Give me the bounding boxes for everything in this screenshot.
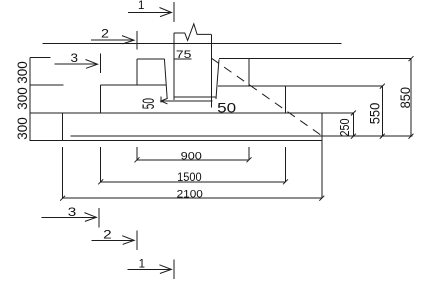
wall left edge — [173, 33, 175, 100]
svg-text:2: 2 — [103, 230, 112, 242]
svg-text:3: 3 — [71, 53, 79, 65]
svg-text:2100: 2100 — [177, 189, 203, 201]
left level stub at tier-1 top — [30, 56, 51, 58]
tier-1 right top edge + 850 extension — [219, 58, 411, 60]
tick slash 900 left — [135, 157, 140, 162]
1500 dimension line — [101, 181, 286, 183]
section arrow 3 bottom shaft — [42, 216, 97, 218]
section arrow 2 bottom shaft — [92, 239, 135, 241]
50 dim arrow stub — [160, 96, 162, 102]
wall base ledge line — [174, 96, 216, 98]
wall break symbol — [174, 24, 212, 41]
tier-2 left top edge — [101, 84, 166, 86]
tier-2 right top edge + 550 extension — [218, 85, 382, 87]
section arrow 1 bottom shaft — [127, 268, 171, 270]
section tick 1 top — [173, 2, 175, 22]
2100 extension left — [62, 147, 64, 198]
section arrow 2 top shaft — [91, 39, 134, 41]
svg-text:75: 75 — [176, 49, 192, 61]
slab top edge — [30, 112, 354, 114]
tier-2 left edge — [100, 85, 102, 113]
tick slash 2100 right — [319, 196, 324, 201]
250 dimension line — [352, 113, 354, 136]
tick slash 850 top — [409, 56, 414, 61]
tick slash 1500 right — [283, 179, 288, 184]
svg-text:850: 850 — [397, 87, 413, 109]
svg-text:1: 1 — [138, 0, 144, 12]
section arrowhead 1 bottom — [159, 265, 171, 274]
850 dimension line — [410, 59, 412, 137]
tick slash 250 bottom — [351, 134, 356, 139]
svg-text:50: 50 — [217, 100, 236, 116]
tick slash 550 top — [380, 84, 385, 89]
tier-1 right edge — [248, 59, 250, 86]
section tick 3 bottom — [98, 208, 100, 227]
900 extension left — [136, 147, 138, 160]
tick slash 900 right — [247, 157, 252, 162]
50 dim arrowhead — [161, 98, 168, 104]
slab bottom inner edge — [70, 135, 412, 137]
tier-2 right edge — [285, 86, 287, 113]
section tick 2 top — [136, 31, 138, 50]
svg-text:900: 900 — [181, 151, 202, 163]
svg-text:250: 250 — [338, 118, 352, 136]
550 dimension line — [381, 86, 383, 136]
tier-1 left edge — [136, 59, 138, 85]
wall right edge — [210, 34, 212, 107]
svg-text:550: 550 — [368, 103, 383, 125]
tick slash 850 bottom — [409, 134, 414, 139]
tick slash 550 bottom — [380, 134, 385, 139]
section arrowhead 3 top — [86, 60, 98, 69]
svg-text:3: 3 — [68, 207, 77, 219]
tick slash 250 top — [351, 111, 356, 116]
section arrow 1 top shaft — [128, 12, 172, 14]
right batter line — [216, 60, 219, 100]
svg-text:300: 300 — [14, 61, 30, 84]
left batter line — [164, 59, 167, 99]
section tick 3 top — [99, 54, 101, 74]
svg-text:50: 50 — [140, 98, 158, 109]
tick slash 2100 left — [60, 196, 65, 201]
svg-text:2: 2 — [101, 29, 109, 41]
svg-text:300: 300 — [14, 87, 30, 110]
section tick 1 bottom — [173, 260, 175, 279]
900 dimension line — [137, 159, 249, 161]
svg-text:1500: 1500 — [177, 170, 202, 184]
section arrow 3 top shaft — [54, 63, 97, 65]
tick slash 1500 left — [98, 179, 103, 184]
50 dimension line under wall — [161, 100, 213, 102]
slab bottom outer edge — [30, 139, 322, 141]
75 dimension line — [174, 58, 191, 60]
left level stub at tier-2 top — [30, 84, 64, 86]
tier-1 left top edge — [137, 58, 164, 60]
section arrowhead 3 bottom — [84, 213, 96, 222]
slab section step vertical — [62, 113, 64, 140]
1500 extension right — [285, 147, 287, 182]
ground line — [42, 43, 341, 45]
svg-text:300: 300 — [14, 117, 30, 140]
slab right edge + 2100 extension — [321, 113, 323, 198]
section arrowhead 2 top — [122, 36, 134, 44]
section arrowhead 1 top — [160, 8, 172, 17]
2100 dimension line — [63, 197, 322, 199]
section arrowhead 2 bottom — [122, 236, 134, 245]
left dimension line / slab left edge — [29, 57, 31, 140]
dashed load-spread diagonal — [211, 58, 321, 135]
svg-text:1: 1 — [139, 259, 145, 271]
section tick 2 bottom — [136, 231, 138, 250]
900 extension right — [248, 147, 250, 160]
1500 extension left — [100, 147, 102, 182]
